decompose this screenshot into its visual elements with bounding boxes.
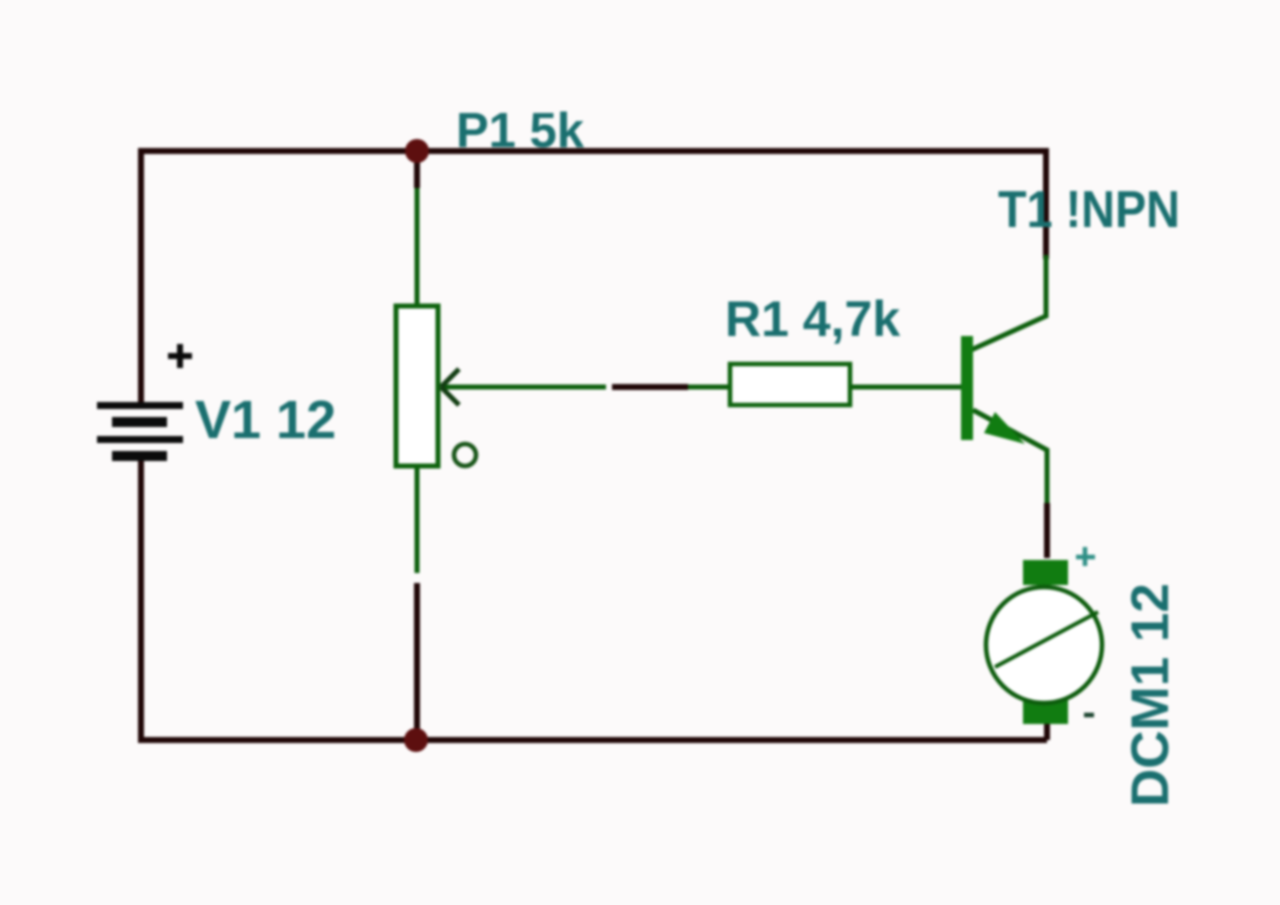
svg-text:DCM1 12: DCM1 12 [1121, 583, 1180, 807]
svg-text:R1 4,7k: R1 4,7k [725, 291, 900, 347]
svg-text:V1 12: V1 12 [195, 390, 336, 450]
svg-text:P1 5k: P1 5k [456, 104, 585, 158]
svg-text:T1 !NPN: T1 !NPN [998, 181, 1180, 239]
